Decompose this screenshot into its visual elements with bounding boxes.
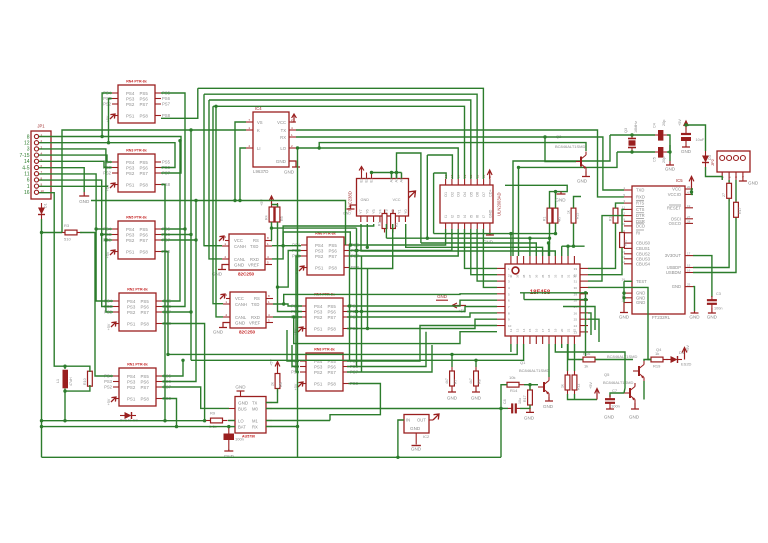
wire line 142.6 to Q2 collector: [319, 143, 586, 151]
svg-text:GND: GND: [483, 240, 494, 245]
svg-text:CBUS1: CBUS1: [636, 246, 651, 251]
svg-text:AU5790: AU5790: [242, 435, 255, 439]
svg-text:PS5: PS5: [140, 160, 149, 165]
svg-text:17: 17: [541, 328, 545, 332]
+5V supply above R6: [275, 362, 280, 370]
ground below R7: [448, 390, 456, 392]
ground at L9637D GND pin: [289, 161, 300, 167]
svg-text:4k7: 4k7: [558, 216, 562, 222]
svg-text:PS8: PS8: [328, 326, 337, 331]
+5V supply at D4: [682, 348, 687, 360]
svg-text:O2: O2: [450, 192, 454, 197]
svg-text:RN1 PTR-8x: RN1 PTR-8x: [127, 363, 148, 367]
svg-text:C8: C8: [503, 399, 507, 404]
svg-text:RXD: RXD: [250, 257, 259, 262]
wire 82C250-2 TXD to RN7 PS4: [273, 304, 302, 306]
wire R4 node line to RN6 chain: [272, 227, 357, 229]
wire RN chain verticals: [349, 245, 351, 361]
svg-text:20p: 20p: [662, 120, 666, 126]
wire R2 bottom to 233 line: [555, 223, 557, 234]
wire PIC right junction vertical: [585, 293, 587, 356]
wire JP1 pin7 chain: [39, 174, 113, 301]
svg-text:VCC: VCC: [393, 198, 401, 202]
svg-text:TXD: TXD: [251, 302, 259, 307]
svg-text:GND: GND: [235, 321, 246, 326]
wire Q4 collector: [643, 381, 645, 400]
svg-text:14: 14: [522, 328, 526, 332]
wire RN6 left pins: [278, 251, 302, 288]
wire K junction vertical: [190, 130, 192, 360]
wire RN4 PS7 junction: [162, 311, 191, 313]
svg-text:PS2: PS2: [126, 102, 135, 107]
svg-text:I6: I6: [476, 215, 480, 218]
svg-text:6: 6: [27, 178, 30, 184]
wire JP1 pin8 chain: [39, 180, 113, 306]
svg-text:PS8: PS8: [140, 113, 149, 118]
svg-text:PS2: PS2: [314, 370, 323, 375]
svg-text:1: 1: [27, 184, 30, 190]
svg-text:GND: GND: [411, 447, 422, 452]
resistor R8 4k7: [474, 367, 479, 390]
wire top bundle 4: [213, 106, 465, 179]
resistor R4 above 82C250: [269, 203, 274, 226]
svg-text:20: 20: [687, 185, 691, 189]
resistor R11 1k: [572, 371, 577, 394]
svg-text:15: 15: [528, 328, 532, 332]
svg-text:VCC: VCC: [277, 120, 286, 125]
svg-text:L9637D: L9637D: [253, 169, 268, 174]
svg-text:L1: L1: [56, 379, 60, 383]
svg-text:PS5: PS5: [141, 299, 150, 304]
ground below C6: [682, 146, 690, 147]
transistor Q5 BC846ALT1SMD: [624, 383, 635, 403]
svg-text:510: 510: [64, 237, 71, 242]
+5V supply at 74HC238 VCC: [359, 167, 364, 173]
svg-text:E3: E3: [360, 178, 364, 183]
svg-text:PS4: PS4: [127, 374, 136, 379]
svg-text:RESET: RESET: [667, 205, 681, 210]
wire DTR to PIC: [588, 216, 624, 282]
wire TXD1 riser to 74HC Y: [283, 224, 374, 246]
svg-text:VCC: VCC: [672, 187, 681, 192]
ground mid cluster: [557, 192, 566, 194]
svg-text:+5V: +5V: [260, 199, 264, 206]
svg-text:PS1: PS1: [314, 326, 323, 331]
svg-text:PS1: PS1: [126, 182, 135, 187]
wire R1 bottom to PIC pin: [549, 223, 551, 256]
wire PIC right to R16 path: [588, 287, 648, 356]
wire 648 to R19: [648, 356, 651, 360]
wire CTS through R20 to PIC: [622, 209, 624, 232]
svg-text:25: 25: [574, 318, 578, 322]
svg-text:GND: GND: [748, 181, 759, 186]
svg-text:R17: R17: [523, 395, 527, 402]
wire C8 R17 node: [520, 405, 530, 408]
wire JP1 feed vertical to bottom bus: [41, 219, 43, 457]
wire JP1 pin6 to ground: [39, 168, 84, 192]
svg-text:R11: R11: [577, 384, 581, 390]
resistor network RN1: [118, 85, 155, 123]
svg-text:PS2: PS2: [127, 385, 136, 390]
svg-text:GND: GND: [672, 284, 681, 289]
wire 74HC A1 up and over: [397, 153, 421, 243]
svg-text:PS6: PS6: [140, 165, 149, 170]
wire RN4 PS5 up chain: [162, 141, 180, 301]
svg-text:ES2D: ES2D: [681, 362, 692, 367]
svg-text:GND: GND: [213, 330, 224, 335]
svg-text:100n: 100n: [235, 437, 244, 442]
svg-text:PS5: PS5: [328, 304, 337, 309]
wire PIC bottom to R16: [568, 344, 583, 360]
ground below IC2: [412, 445, 421, 447]
svg-text:PS8: PS8: [140, 182, 149, 187]
svg-text:PS1: PS1: [126, 249, 135, 254]
wire 246 rail to PIC pins: [562, 245, 585, 247]
svg-text:PS6: PS6: [329, 248, 338, 253]
svg-text:13: 13: [515, 328, 519, 332]
svg-text:GND: GND: [689, 315, 700, 320]
svg-text:CANH: CANH: [235, 302, 247, 307]
ground below R8: [472, 390, 480, 392]
svg-text:PS3: PS3: [315, 248, 324, 253]
svg-text:16MHz: 16MHz: [634, 121, 638, 133]
svg-text:Y0: Y0: [404, 209, 408, 214]
svg-text:38: 38: [522, 274, 526, 278]
svg-text:PS8: PS8: [141, 321, 150, 326]
wire VCC VCCIO tie: [692, 189, 694, 194]
svg-text:10u: 10u: [518, 398, 522, 404]
ground near JP1: [79, 192, 89, 196]
svg-text:PS2: PS2: [104, 385, 113, 390]
transistor Q4 BC846ALT1SMD: [633, 361, 644, 381]
svg-text:R8: R8: [478, 379, 482, 384]
svg-text:16: 16: [24, 190, 30, 196]
svg-text:CBUS4: CBUS4: [636, 261, 651, 266]
wire BAT junction: [227, 425, 230, 428]
svg-text:21: 21: [566, 328, 570, 332]
svg-text:ULN2003AD: ULN2003AD: [497, 192, 502, 216]
resistor R2 below 74HC238: [391, 210, 396, 233]
wire RN7 right to PIC: [347, 300, 497, 306]
svg-text:O6: O6: [476, 192, 480, 197]
wire JP1 pin2 to RN2 PS6: [39, 143, 175, 168]
wire R4 to 82C250 RS: [271, 222, 274, 241]
svg-text:CANH: CANH: [234, 244, 246, 249]
svg-text:GND: GND: [224, 454, 235, 459]
svg-text:10k: 10k: [509, 375, 515, 380]
svg-text:RS: RS: [254, 296, 260, 301]
svg-text:32: 32: [560, 274, 564, 278]
svg-text:20: 20: [560, 328, 564, 332]
svg-text:GND: GND: [681, 149, 692, 154]
svg-text:CANL: CANL: [235, 315, 247, 320]
wire bottom bus: [42, 456, 502, 458]
+5V supply near C6: [684, 121, 689, 130]
svg-text:1k: 1k: [561, 384, 565, 388]
resistor R19: [646, 357, 668, 362]
svg-text:GND: GND: [636, 300, 645, 305]
svg-text:CANL: CANL: [234, 257, 246, 262]
svg-text:PS2: PS2: [103, 102, 112, 107]
svg-text:2k: 2k: [271, 382, 275, 386]
+5V supply right of R11: [595, 389, 600, 400]
svg-text:I4: I4: [463, 215, 467, 218]
wire top bundle 3: [209, 100, 471, 179]
wire L9637D TX long line to FT232 RXD: [296, 130, 624, 197]
svg-text:RXD: RXD: [251, 315, 260, 320]
svg-text:R5: R5: [280, 216, 284, 221]
resistor R6 2k: [275, 370, 280, 393]
svg-text:PS7: PS7: [140, 171, 149, 176]
svg-text:I2: I2: [450, 215, 454, 218]
capacitor C7 100n: [605, 395, 615, 407]
+5V supply at L9637D VCC: [291, 114, 296, 122]
wire ULN pin2 feed: [427, 155, 452, 179]
svg-text:VREF: VREF: [248, 263, 260, 268]
svg-text:RX: RX: [252, 425, 258, 430]
svg-text:19: 19: [554, 328, 558, 332]
wire R10 R11 to +5V rail: [568, 394, 598, 400]
svg-text:GND: GND: [707, 315, 718, 320]
svg-text:GND: GND: [410, 426, 421, 431]
ground at Q1 emitter: [545, 397, 553, 401]
CAN transceiver IC3 82C250: [230, 292, 266, 328]
svg-text:GND: GND: [234, 263, 245, 268]
svg-text:PS8: PS8: [162, 113, 171, 118]
svg-text:USBDM: USBDM: [666, 270, 682, 275]
resistor network RN5: [119, 368, 156, 406]
svg-text:82C250: 82C250: [239, 330, 256, 335]
wire FT232 left GND pins tie: [623, 293, 625, 302]
resistor R16 1k: [578, 357, 600, 362]
svg-text:3: 3: [27, 147, 30, 153]
svg-text:3V3OUT: 3V3OUT: [665, 253, 682, 258]
svg-text:RN4 PTR-8x: RN4 PTR-8x: [126, 80, 147, 84]
wire JP1 pin3 chain: [39, 149, 113, 312]
svg-text:PS7: PS7: [162, 102, 171, 107]
svg-text:GND: GND: [343, 212, 351, 216]
svg-text:PS7: PS7: [328, 370, 337, 375]
svg-text:31: 31: [574, 280, 578, 284]
wire ULN outputs down to PIC left: [465, 229, 498, 268]
svg-text:12: 12: [24, 141, 30, 147]
svg-text:C7: C7: [612, 388, 618, 393]
resistor R7 4k7: [450, 367, 455, 390]
svg-text:TXD: TXD: [250, 244, 258, 249]
driver IC7 ULN2003AD: [440, 185, 493, 223]
svg-text:PS2: PS2: [103, 171, 112, 176]
svg-text:TX: TX: [281, 128, 287, 133]
wire top bundle 1: [198, 88, 484, 179]
svg-text:PS2: PS2: [126, 171, 135, 176]
svg-text:PS3: PS3: [127, 304, 136, 309]
+5V supply above R4 R5: [269, 196, 274, 204]
svg-text:C5: C5: [653, 157, 657, 162]
capacitor C8 10u: [508, 403, 520, 413]
resistor network RN2: [118, 154, 155, 192]
svg-text:R20: R20: [624, 240, 628, 246]
svg-text:RN5 PTR-8x: RN5 PTR-8x: [126, 216, 147, 220]
svg-text:7-15: 7-15: [19, 153, 29, 159]
svg-text:PS5: PS5: [162, 160, 171, 165]
svg-text:PS3: PS3: [314, 364, 323, 369]
svg-text:+5V: +5V: [678, 119, 682, 126]
wire PIC right lower: [588, 307, 595, 331]
svg-text:82C250: 82C250: [238, 272, 255, 277]
svg-text:PS6: PS6: [141, 304, 150, 309]
svg-text:D1: D1: [44, 203, 48, 208]
svg-text:GND: GND: [79, 199, 90, 204]
crystal Q3 16MHz: [628, 135, 636, 152]
wire R15 vertical: [574, 197, 582, 209]
svg-text:GND: GND: [524, 416, 535, 421]
svg-text:TX: TX: [252, 401, 258, 406]
wire R1 R2 tops to GND elbow: [505, 185, 567, 208]
svg-text:PS4: PS4: [126, 91, 135, 96]
svg-text:RXD: RXD: [636, 194, 645, 199]
wire long 360 line: [191, 344, 524, 360]
wire PIC bottom to R10 R11: [567, 344, 569, 371]
resistor R10 1k: [565, 371, 570, 394]
svg-text:4k7: 4k7: [469, 378, 473, 384]
resistor R5 above 82C250: [275, 203, 280, 226]
svg-text:16: 16: [687, 269, 691, 273]
wire PIC bottom to Q1 collector: [548, 344, 550, 377]
resistor R20 on CTS line: [620, 233, 625, 248]
svg-text:Q5: Q5: [604, 372, 610, 377]
ground below C7: [606, 407, 614, 409]
wire 74HC Y0 Y1 to PIC: [361, 224, 555, 256]
wire RN4 PS8 to R9 line: [162, 324, 205, 421]
wire 82C250 RXD to RN6 PS5: [272, 232, 350, 259]
svg-text:12: 12: [509, 328, 513, 332]
ground at ULN2003 pin8: [486, 229, 494, 235]
svg-text:+5V: +5V: [589, 382, 593, 389]
+5V supply at IC2 OUT: [433, 414, 439, 420]
svg-text:PS3: PS3: [127, 379, 136, 384]
svg-text:GND: GND: [577, 179, 588, 184]
resistor network RN7: [306, 298, 343, 336]
svg-text:GND: GND: [488, 209, 492, 218]
wire +5V to D3 to USB VBUS: [686, 125, 706, 151]
svg-text:PS6: PS6: [328, 309, 337, 314]
svg-text:GND: GND: [361, 198, 370, 202]
svg-text:M1: M1: [252, 419, 258, 424]
resistor network RN3: [118, 221, 155, 259]
wire RN1 PS4 riser: [102, 93, 112, 137]
svg-text:PS1: PS1: [127, 321, 136, 326]
svg-text:R17: R17: [738, 207, 742, 214]
svg-text:23: 23: [574, 330, 578, 334]
capacitor C9 100n at AU5790: [224, 434, 235, 441]
svg-text:PS3: PS3: [314, 309, 323, 314]
svg-text:D3: D3: [708, 155, 712, 160]
svg-text:BAT: BAT: [238, 425, 246, 430]
svg-text:19: 19: [687, 204, 691, 208]
svg-text:PS3: PS3: [126, 96, 135, 101]
wire USBDM to 27R: [693, 218, 736, 273]
svg-text:39: 39: [515, 274, 519, 278]
wire long 200 line: [91, 201, 346, 246]
wire RN1 PS5 down chain: [161, 93, 185, 250]
wire RN1 PS3 riser: [109, 99, 113, 143]
svg-text:33: 33: [554, 274, 558, 278]
wire K-line from R3 to L9637D: [62, 130, 246, 233]
ground at Q2 emitter: [582, 172, 590, 177]
wire L9637D VS: [235, 122, 246, 201]
wire 82C250-2 RXD to RN7 PS2: [273, 316, 302, 318]
inductor L1 47uH: [63, 370, 69, 389]
svg-text:C4: C4: [653, 123, 657, 128]
svg-text:VCC: VCC: [235, 296, 244, 301]
svg-text:I1: I1: [444, 215, 448, 218]
svg-text:GND: GND: [629, 415, 640, 420]
wire L1 R10 bottom tie: [64, 389, 66, 421]
svg-text:IC2: IC2: [423, 434, 430, 439]
diode D4 ES2D: [666, 356, 682, 363]
wire R5 down to RN7 PS3: [278, 222, 303, 312]
svg-text:35: 35: [541, 274, 545, 278]
wire top bundle 2: [204, 94, 477, 179]
svg-text:JP1: JP1: [37, 124, 45, 129]
wire RXD2 drop to PIC: [294, 317, 497, 344]
wire left to BAT: [42, 426, 229, 428]
resistor R9: [206, 418, 228, 423]
svg-text:I7: I7: [482, 215, 486, 218]
svg-text:17: 17: [687, 252, 691, 256]
svg-text:PS8: PS8: [140, 249, 149, 254]
svg-text:BUS: BUS: [238, 407, 247, 412]
wire R3 right to RN5: [80, 233, 113, 377]
svg-text:R3: R3: [64, 223, 70, 228]
ground below R17: [526, 408, 534, 412]
svg-text:PS8: PS8: [141, 396, 150, 401]
svg-text:R19: R19: [653, 364, 661, 369]
svg-text:8: 8: [27, 134, 30, 140]
K-line transceiver IC4 L9637D: [253, 112, 289, 167]
svg-text:FT232RL: FT232RL: [652, 315, 671, 320]
wire AU5790 M0 long to Q1 area: [266, 408, 501, 410]
wire PIC bottom misc: [555, 344, 625, 393]
svg-text:36: 36: [535, 274, 539, 278]
ground at 74HC238: [347, 205, 357, 209]
wire JP1 pin4 to RN2 PS4: [39, 155, 112, 162]
resistor R14 10k: [502, 382, 524, 387]
svg-text:BC846ALT1SMD: BC846ALT1SMD: [519, 368, 549, 373]
svg-text:PS2: PS2: [314, 315, 323, 320]
wire L9637D LO line: [296, 148, 458, 179]
svg-text:PS5: PS5: [141, 374, 150, 379]
svg-text:R6: R6: [279, 382, 283, 387]
svg-text:11: 11: [24, 172, 29, 178]
USB connector JP2: [717, 151, 750, 172]
svg-text:+5V: +5V: [107, 398, 111, 405]
svg-text:Y1: Y1: [397, 209, 401, 214]
wire E-pin tie at 74HC238: [372, 172, 402, 174]
svg-text:Y6: Y6: [366, 209, 370, 214]
svg-text:PS4: PS4: [126, 160, 135, 165]
svg-text:PS5: PS5: [328, 359, 337, 364]
wire crystal to PIC OSC pins: [513, 135, 610, 256]
diode D2 below RN5: [120, 412, 136, 419]
svg-text:PS3: PS3: [126, 165, 135, 170]
svg-text:PS7: PS7: [140, 102, 149, 107]
capacitor C6 10uF: [681, 130, 691, 146]
svg-text:40: 40: [509, 274, 513, 278]
wire RN5 right pins: [162, 360, 183, 376]
svg-text:O3: O3: [457, 192, 461, 197]
svg-text:R10: R10: [83, 378, 87, 385]
